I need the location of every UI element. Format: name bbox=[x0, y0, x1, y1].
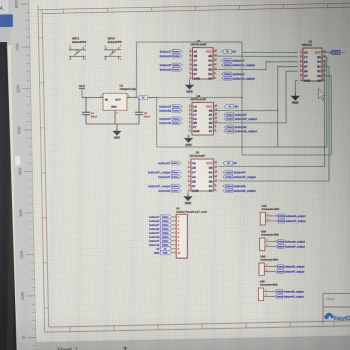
wire U2 5A to U5 row5 bbox=[219, 67, 330, 182]
svg-text:button4b: button4b bbox=[234, 184, 246, 188]
svg-text:220uF: 220uF bbox=[91, 116, 98, 118]
svg-text:2: 2 bbox=[267, 219, 268, 221]
svg-text:1: 1 bbox=[105, 59, 106, 61]
svg-text:button: button bbox=[173, 55, 180, 58]
svg-text:HD74LS08P: HD74LS08P bbox=[191, 42, 207, 46]
svg-text:IN: IN bbox=[105, 98, 108, 102]
svg-text:2: 2 bbox=[267, 245, 268, 247]
svg-text:button: button bbox=[278, 240, 285, 243]
svg-text:button: button bbox=[227, 118, 234, 121]
svg-text:button1b: button1b bbox=[149, 220, 160, 223]
svg-text:button2b: button2b bbox=[159, 109, 171, 113]
svg-text:5V: 5V bbox=[235, 105, 239, 109]
mouse cursor bbox=[318, 89, 325, 101]
svg-text:button4T: button4T bbox=[149, 240, 160, 243]
capacitor C1 220uF bbox=[82, 112, 98, 118]
svg-text:button4T_output: button4T_output bbox=[148, 184, 170, 188]
net flag button4b bbox=[158, 189, 181, 193]
svg-text:GND: GND bbox=[163, 253, 168, 255]
svg-text:button2b_output: button2b_output bbox=[285, 241, 305, 244]
svg-text:KEY1: KEY1 bbox=[72, 36, 80, 40]
IC U4 HD74LS08P bbox=[189, 94, 218, 135]
svg-text:button4b_output: button4b_output bbox=[234, 189, 256, 193]
svg-text:button: button bbox=[224, 59, 231, 62]
svg-text:5V: 5V bbox=[232, 50, 236, 54]
svg-text:GND: GND bbox=[114, 136, 120, 140]
svg-text:button3b_output: button3b_output bbox=[284, 266, 304, 269]
svg-text:Connector-2Pin: Connector-2Pin bbox=[262, 208, 280, 211]
svg-text:Button6*6*5: Button6*6*5 bbox=[72, 41, 87, 44]
svg-text:button: button bbox=[162, 228, 169, 231]
svg-text:GND: GND bbox=[154, 252, 160, 255]
svg-text:button: button bbox=[225, 185, 232, 188]
net flag button3T at H1 pin 5 bbox=[149, 231, 172, 235]
svg-text:3Y: 3Y bbox=[209, 189, 213, 193]
net flag button3b_output bbox=[275, 265, 304, 269]
net flag 5V bbox=[223, 161, 237, 165]
svg-text:HD74LS08P: HD74LS08P bbox=[191, 97, 207, 101]
svg-text:button: button bbox=[276, 295, 283, 298]
svg-text:button2b: button2b bbox=[149, 228, 160, 231]
wire U2 GND pin left-down bbox=[295, 81, 297, 93]
svg-text:1Y: 1Y bbox=[193, 59, 197, 63]
svg-text:Connector-2Pin: Connector-2Pin bbox=[260, 259, 278, 262]
svg-text:6Y: 6Y bbox=[317, 60, 321, 64]
net flag button1T bbox=[160, 50, 183, 54]
net flag 5V at H1 pin 9 bbox=[156, 247, 172, 251]
svg-text:button: button bbox=[173, 50, 180, 53]
svg-text:button: button bbox=[173, 64, 180, 67]
capacitor C2 100uF bbox=[135, 112, 151, 118]
svg-text:button3b: button3b bbox=[159, 121, 171, 125]
svg-text:VCC: VCC bbox=[79, 84, 86, 88]
net flag button2T bbox=[159, 105, 182, 109]
wire C1 to bottom rail bbox=[85, 115, 87, 124]
net flag button2Y bbox=[224, 113, 247, 117]
svg-text:button: button bbox=[225, 190, 232, 193]
svg-text:GND: GND bbox=[185, 201, 191, 205]
svg-text:rol_: rol_ bbox=[0, 6, 5, 12]
net flag button3b bbox=[159, 121, 182, 125]
net flag button4T_output bbox=[275, 295, 304, 299]
net flag button2b at H1 pin 4 bbox=[149, 227, 172, 231]
node junction at 277.7,111.7 bbox=[277, 110, 279, 112]
svg-text:button: button bbox=[162, 236, 169, 239]
svg-text:2Y: 2Y bbox=[192, 184, 196, 188]
svg-text:button: button bbox=[162, 244, 169, 247]
svg-text:1: 1 bbox=[69, 45, 70, 47]
svg-text:5Y: 5Y bbox=[317, 69, 321, 73]
svg-text:button: button bbox=[173, 68, 180, 71]
IC U2 74HC14 bbox=[300, 40, 327, 83]
svg-text:2Y: 2Y bbox=[304, 65, 308, 69]
svg-text:button4b: button4b bbox=[149, 244, 160, 247]
svg-text:200: 200 bbox=[19, 250, 25, 258]
svg-text:GND: GND bbox=[192, 189, 200, 193]
svg-text:3Y: 3Y bbox=[304, 74, 308, 78]
svg-text:button: button bbox=[172, 176, 179, 179]
net flag button3Y_output bbox=[148, 170, 181, 174]
svg-text:button4T_output: button4T_output bbox=[284, 296, 304, 299]
net flag 5V at U2 VCC bbox=[322, 50, 345, 54]
wire U2 4A loop to riser x242 bbox=[242, 76, 331, 155]
net flag button4T at H1 pin 7 bbox=[149, 239, 172, 243]
svg-text:5V: 5V bbox=[234, 161, 238, 165]
wire U2 6A loop down bbox=[322, 57, 327, 147]
svg-text:button1T_output: button1T_output bbox=[286, 220, 306, 223]
net flag button2b bbox=[159, 109, 182, 113]
node junction at 242,97.5 bbox=[241, 97, 243, 99]
regulator U3 7805(SOT-89) bbox=[101, 84, 136, 115]
sheet tab bar bbox=[36, 335, 350, 350]
svg-text:button3T_output: button3T_output bbox=[284, 271, 304, 274]
svg-text:button1b_output: button1b_output bbox=[286, 215, 306, 218]
net flag button1T_output bbox=[276, 219, 305, 223]
connector CN3 Connector-2Pin bbox=[260, 230, 280, 250]
svg-text:4Y: 4Y bbox=[209, 175, 213, 179]
svg-text:2: 2 bbox=[120, 45, 121, 47]
svg-text:button2Y_output: button2Y_output bbox=[235, 117, 257, 121]
svg-text:2: 2 bbox=[120, 59, 121, 61]
svg-text:button: button bbox=[162, 220, 169, 223]
svg-text:button: button bbox=[173, 118, 180, 121]
svg-text:4Y: 4Y bbox=[208, 63, 212, 67]
collapsed dark side panel bbox=[0, 42, 18, 350]
svg-text:GND: GND bbox=[193, 77, 201, 81]
ground below U4 bbox=[184, 135, 193, 147]
wire bottom rail bbox=[86, 123, 139, 125]
svg-text:Header-Female-1.27_1x10: Header-Female-1.27_1x10 bbox=[176, 211, 207, 214]
svg-text:button: button bbox=[277, 265, 284, 268]
svg-text:2: 2 bbox=[266, 270, 267, 272]
net flag button2b_output bbox=[276, 240, 305, 244]
net flag button2T at H1 pin 3 bbox=[149, 223, 172, 227]
svg-text:Button6*6*5: Button6*6*5 bbox=[108, 41, 123, 44]
svg-text:button: button bbox=[227, 130, 234, 133]
svg-text:button4T: button4T bbox=[158, 175, 170, 179]
wire C1 branch bbox=[85, 98, 87, 113]
net flag button4b bbox=[223, 184, 246, 188]
svg-text:button: button bbox=[278, 220, 285, 223]
svg-text:button2T: button2T bbox=[160, 63, 172, 67]
net flag button2b_output bbox=[224, 129, 257, 133]
net flag button1b at H1 pin 2 bbox=[149, 219, 172, 223]
svg-text:VCC: VCC bbox=[206, 50, 213, 54]
net flag button1Y bbox=[222, 59, 245, 63]
svg-text:2: 2 bbox=[265, 295, 266, 297]
svg-text:button: button bbox=[172, 190, 179, 193]
wire U5 GND pin down bbox=[187, 191, 189, 194]
svg-text:74HC14: 74HC14 bbox=[302, 43, 313, 47]
svg-text:button: button bbox=[227, 114, 234, 117]
net flag button3T bbox=[159, 117, 182, 121]
svg-text:Connector-2Pin: Connector-2Pin bbox=[261, 234, 279, 237]
svg-text:button1Y: button1Y bbox=[232, 59, 244, 63]
svg-text:2: 2 bbox=[85, 45, 86, 47]
net flag button1b bbox=[222, 72, 245, 76]
net flag button2T bbox=[160, 63, 183, 67]
net flag button4b at H1 pin 8 bbox=[149, 243, 172, 247]
wire U1 2Y to U2 1Y bbox=[215, 55, 298, 58]
svg-text:5V: 5V bbox=[156, 248, 159, 251]
svg-text:button1b_output: button1b_output bbox=[232, 77, 254, 81]
svg-text:1: 1 bbox=[69, 59, 70, 61]
svg-text:1: 1 bbox=[265, 290, 266, 292]
net flag button3Y bbox=[158, 161, 181, 165]
svg-text:button: button bbox=[172, 185, 179, 188]
svg-text:2: 2 bbox=[85, 59, 86, 61]
svg-text:100: 100 bbox=[20, 292, 26, 300]
left file panel with tab bbox=[0, 0, 13, 46]
net flag button4b_output bbox=[275, 290, 304, 294]
svg-text:button: button bbox=[227, 126, 234, 129]
svg-text:button1b: button1b bbox=[232, 72, 244, 76]
svg-text:TITLE:: TITLE: bbox=[326, 297, 335, 301]
net flag button3b at H1 pin 6 bbox=[149, 235, 172, 239]
net flag button3T_output bbox=[275, 270, 304, 274]
svg-text:600: 600 bbox=[16, 84, 22, 92]
wire U3 GND pin down bbox=[114, 110, 116, 124]
svg-text:VCC: VCC bbox=[206, 161, 213, 165]
svg-text:700: 700 bbox=[15, 43, 21, 51]
wire to U2 pin 1A bbox=[242, 51, 298, 53]
svg-text:button: button bbox=[162, 224, 169, 227]
svg-text:GND: GND bbox=[185, 143, 191, 147]
svg-text:button: button bbox=[278, 245, 285, 248]
svg-text:1: 1 bbox=[105, 45, 106, 47]
net flag GND at H1 pin 10 bbox=[154, 251, 172, 255]
wire 5V node drop x156 bbox=[156, 98, 158, 148]
svg-text:button: button bbox=[276, 290, 283, 293]
wire U2 6Y to U5 row2 bbox=[219, 62, 325, 167]
svg-text:button2b_output: button2b_output bbox=[235, 129, 257, 133]
net flag button4Y bbox=[223, 170, 246, 174]
wire riser at x136 to 5V node bbox=[136, 42, 138, 98]
svg-text:KEY2: KEY2 bbox=[108, 36, 116, 40]
svg-text:2: 2 bbox=[116, 112, 117, 114]
net flag button1b bbox=[160, 54, 183, 58]
title block with EasyEDA logo bbox=[323, 294, 350, 325]
net flag button1b_output bbox=[222, 77, 255, 81]
svg-text:button4b: button4b bbox=[158, 189, 170, 193]
svg-text:1Y: 1Y bbox=[192, 170, 196, 174]
svg-text:GND: GND bbox=[292, 101, 298, 105]
wire C2 branch bbox=[138, 98, 140, 113]
svg-text:button3T: button3T bbox=[149, 232, 160, 235]
connector CN2 Connector-2Pin bbox=[259, 255, 279, 275]
net flag button1b_output bbox=[276, 214, 305, 218]
svg-text:3Y: 3Y bbox=[209, 129, 213, 133]
wire U3 OUT to 5V rail bbox=[127, 97, 157, 99]
svg-text:+: + bbox=[123, 344, 128, 350]
svg-text:button: button bbox=[162, 232, 169, 235]
net flag button2T_output bbox=[276, 245, 305, 249]
wire U1 GND pin down bbox=[189, 79, 191, 82]
ground below U2 bbox=[291, 93, 300, 105]
svg-text:button1T: button1T bbox=[149, 216, 160, 219]
svg-text:400: 400 bbox=[17, 167, 23, 175]
push button KEY1 bbox=[69, 36, 87, 60]
net flag button4T_output bbox=[148, 184, 181, 188]
svg-text:HD74LS08P: HD74LS08P bbox=[190, 154, 206, 158]
svg-text:button2T: button2T bbox=[149, 224, 160, 227]
connector CN4 Connector-2Pin bbox=[260, 205, 280, 225]
svg-text:button: button bbox=[224, 64, 231, 67]
wire U4 4B row to riser bbox=[215, 110, 278, 112]
wire U4 3B row to U2 3A bbox=[215, 71, 298, 123]
svg-text:1: 1 bbox=[267, 240, 268, 242]
wire VCC to U3 IN bbox=[82, 97, 103, 99]
svg-text:button4Y: button4Y bbox=[234, 170, 246, 174]
net flag button2b bbox=[224, 125, 247, 129]
svg-text:OUT: OUT bbox=[115, 98, 121, 102]
connector H1 Header-Female-1.27_1x10 bbox=[172, 206, 207, 258]
svg-text:button1b: button1b bbox=[160, 54, 172, 58]
net flag button2Y_output bbox=[224, 117, 257, 121]
svg-text:H1: H1 bbox=[176, 206, 180, 210]
net flag button4Y_output bbox=[223, 175, 256, 179]
wire 5V top rail bbox=[137, 41, 242, 43]
power flag VCC bbox=[79, 84, 86, 97]
ground below U3 bbox=[112, 128, 121, 140]
svg-text:button: button bbox=[173, 109, 180, 112]
svg-text:EasyEDA: EasyEDA bbox=[334, 316, 350, 322]
wire C2 to bottom rail bbox=[138, 115, 140, 124]
svg-text:button: button bbox=[277, 270, 284, 273]
svg-text:300: 300 bbox=[18, 209, 24, 217]
IC U1 HD74LS08P bbox=[189, 39, 217, 81]
svg-text:5V: 5V bbox=[149, 96, 152, 100]
svg-text:GND: GND bbox=[111, 106, 117, 109]
svg-text:1Y: 1Y bbox=[304, 55, 308, 59]
svg-text:0: 0 bbox=[21, 336, 27, 339]
svg-text:button: button bbox=[173, 122, 180, 125]
svg-text:4Y: 4Y bbox=[317, 79, 321, 83]
left ruler strip bbox=[9, 0, 36, 350]
svg-text:button: button bbox=[224, 73, 231, 76]
svg-text:500: 500 bbox=[16, 126, 22, 134]
svg-text:button: button bbox=[224, 77, 231, 80]
wire U1 3B row to U2 2A bbox=[215, 62, 298, 70]
svg-text:button2b: button2b bbox=[160, 68, 172, 72]
node junction at 156.7,97.5 bbox=[156, 97, 158, 99]
svg-text:GND: GND bbox=[304, 79, 312, 83]
wire bottom rail to ground bbox=[116, 124, 118, 128]
svg-text:3Y: 3Y bbox=[208, 77, 212, 81]
svg-text:VCC: VCC bbox=[315, 50, 322, 54]
svg-text:button1T: button1T bbox=[160, 50, 172, 54]
svg-text:GND: GND bbox=[193, 129, 201, 133]
wire U4 GND pin down bbox=[188, 134, 190, 136]
svg-text:button: button bbox=[162, 240, 169, 243]
svg-text:button: button bbox=[278, 215, 285, 218]
svg-text:button2T_output: button2T_output bbox=[285, 246, 305, 249]
net flag button1Y_output bbox=[222, 63, 255, 67]
svg-text:button1Y_output: button1Y_output bbox=[232, 63, 254, 67]
svg-text:7805(SOT-89): 7805(SOT-89) bbox=[120, 87, 137, 91]
net flag 5V bbox=[222, 50, 236, 54]
ground below U1 bbox=[185, 82, 194, 94]
net flag button4b_output bbox=[223, 189, 256, 193]
wire riser x242 bbox=[241, 42, 243, 155]
ground below U5 bbox=[183, 194, 192, 206]
svg-text:button: button bbox=[172, 162, 179, 165]
svg-text:button4b_output: button4b_output bbox=[284, 291, 304, 294]
svg-text:1: 1 bbox=[267, 214, 268, 216]
svg-text:button: button bbox=[225, 171, 232, 174]
push button KEY2 bbox=[104, 36, 122, 60]
net flag 5V at U3 output bbox=[137, 96, 152, 100]
svg-text:GND: GND bbox=[186, 90, 192, 94]
svg-text:button3Y: button3Y bbox=[158, 161, 170, 165]
IC U5 HD74LS08P bbox=[188, 151, 218, 193]
wire riser x277 to U2 2Y bbox=[278, 67, 298, 148]
svg-text:800: 800 bbox=[14, 0, 20, 8]
wire 5V horizontal run bbox=[157, 146, 327, 148]
net flag button4T bbox=[158, 175, 181, 179]
svg-text:button4Y_output: button4Y_output bbox=[234, 175, 256, 179]
svg-text:U3: U3 bbox=[119, 84, 123, 88]
svg-text:button: button bbox=[172, 171, 179, 174]
svg-text:5V: 5V bbox=[342, 51, 345, 54]
connector CN1 Connector-2Pin bbox=[258, 280, 278, 300]
svg-text:2Y: 2Y bbox=[193, 72, 197, 76]
svg-text:Connector-2Pin: Connector-2Pin bbox=[260, 284, 278, 287]
net flag button2b bbox=[160, 68, 183, 72]
net flag button1T at H1 pin 1 bbox=[149, 215, 172, 219]
svg-text:1: 1 bbox=[266, 265, 267, 267]
svg-text:button: button bbox=[162, 216, 169, 219]
svg-text:100uF: 100uF bbox=[144, 116, 151, 118]
net flag 5V bbox=[224, 105, 238, 109]
svg-text:button3Y_output: button3Y_output bbox=[148, 170, 170, 174]
svg-text:button: button bbox=[225, 176, 232, 179]
svg-text:button: button bbox=[173, 105, 180, 108]
node junction at 242,56 bbox=[241, 55, 243, 57]
svg-text:button3b: button3b bbox=[149, 236, 160, 239]
